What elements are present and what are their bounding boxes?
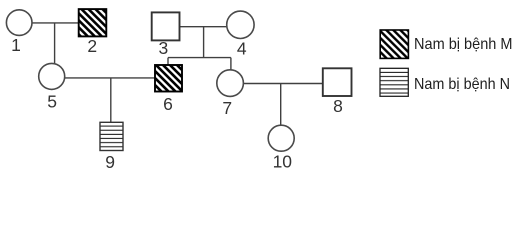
svg-text:4: 4 — [237, 39, 247, 59]
svg-text:Nam bị bệnh M: Nam bị bệnh M — [414, 36, 513, 53]
svg-text:6: 6 — [163, 94, 173, 114]
svg-text:10: 10 — [273, 152, 293, 172]
svg-text:7: 7 — [222, 98, 232, 118]
svg-text:2: 2 — [87, 36, 97, 56]
svg-text:3: 3 — [159, 38, 169, 58]
svg-text:8: 8 — [333, 96, 343, 116]
svg-text:5: 5 — [47, 92, 57, 112]
svg-text:1: 1 — [11, 35, 21, 55]
svg-text:Nam bị bệnh N: Nam bị bệnh N — [414, 76, 510, 93]
svg-text:9: 9 — [105, 152, 115, 172]
